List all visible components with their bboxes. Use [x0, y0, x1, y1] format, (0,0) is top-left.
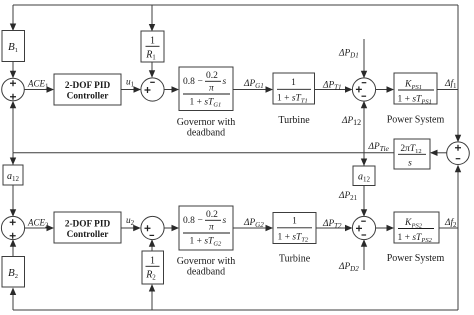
arrowhead into B1 top — [10, 24, 16, 32]
wire governor G1 to turbine T1 — [233, 89, 272, 91]
sign S3 minus bottom — [362, 95, 367, 97]
wire bottom line up into 1/R2 — [151, 285, 153, 310]
svg-text:ΔPTie: ΔPTie — [368, 142, 390, 153]
sign S1 plus bottom — [10, 94, 16, 100]
svg-text:0.8: 0.8 — [183, 216, 195, 226]
summing junction S4 — [1, 216, 24, 239]
wire turbine T2 to sum S6 — [316, 227, 352, 229]
arrowhead into governor G1 — [172, 86, 180, 92]
wire S2 to governor G1 — [164, 89, 178, 91]
wire 1/R2 up to S5 bottom — [151, 240, 153, 251]
arrowhead into controller U2 — [47, 225, 55, 231]
block 1/R2 — [142, 251, 164, 284]
block governor G1 — [179, 67, 233, 111]
block text governor G2 fraction — [183, 210, 230, 248]
arrowhead into S1 top — [10, 71, 16, 79]
wire bottom line up into B2 — [12, 289, 14, 311]
svg-text:Controller: Controller — [67, 230, 109, 240]
arrowhead DPD1 into S3 top — [361, 71, 367, 79]
block B2 — [2, 257, 25, 288]
block text 1/R2 fraction — [145, 256, 159, 282]
sign S2 minus top — [150, 81, 155, 83]
block tie 2piT12/s — [394, 139, 430, 169]
block text governor G1 fraction — [183, 71, 230, 109]
svg-text:π: π — [209, 84, 214, 94]
summing junction S2 — [141, 78, 164, 101]
arrowhead into a12 mid top — [361, 159, 367, 167]
summing junction RS — [447, 142, 470, 165]
arrowhead into S5 bottom — [149, 239, 155, 247]
wire 1/R1 to sum S2 — [151, 62, 153, 77]
block text 1/R1 fraction — [145, 36, 159, 62]
summing junction S1 — [2, 78, 25, 101]
block text PS2 fraction — [398, 218, 435, 244]
wire right vertical Df1 feedback x=458 — [457, 5, 459, 141]
svg-text:Controller: Controller — [67, 92, 109, 102]
svg-text:1: 1 — [150, 256, 155, 267]
sign S4 plus top — [10, 219, 16, 225]
svg-text:Governor with: Governor with — [177, 117, 236, 128]
svg-text:π: π — [209, 223, 214, 233]
wire S1 to controller U1 (ACE1) — [24, 89, 53, 91]
wire a12 left to S4 top — [12, 185, 14, 217]
arrowhead into PS2 — [387, 225, 395, 231]
svg-text:Governor with: Governor with — [177, 256, 236, 267]
svg-text:s: s — [223, 216, 227, 226]
block text turbine T1 fraction — [277, 78, 311, 105]
svg-text:0.8: 0.8 — [183, 77, 195, 87]
arrowhead into governor G2 — [172, 225, 180, 231]
wire S4 to controller U2 (ACE2) — [24, 227, 53, 229]
svg-text:Power System: Power System — [387, 253, 445, 264]
block text turbine T2 fraction — [277, 217, 312, 244]
wire DPD1 into S3 top — [363, 39, 365, 78]
block text controller U2 — [65, 220, 111, 241]
wire controller U2 to sum S5 — [121, 227, 140, 229]
arrowhead into S6 left — [345, 225, 353, 231]
svg-text:Power System: Power System — [387, 115, 445, 126]
sign S3 minus top — [362, 82, 367, 84]
svg-text:−: − — [198, 77, 203, 87]
block power system PS2 — [394, 212, 439, 243]
wire PS2 to Df2 node — [439, 227, 458, 229]
arrowhead into a12 left top — [10, 158, 16, 166]
sign RS plus top — [455, 145, 461, 151]
arrowhead into RS bottom — [455, 165, 461, 173]
block text tie 2piT12/s fraction — [398, 144, 426, 169]
wire PS1 to Df1 node — [437, 89, 458, 91]
block turbine T2 — [273, 213, 316, 244]
wire B1 to sum S1 — [12, 62, 14, 78]
arrowhead into S6 top — [361, 209, 367, 217]
svg-text:−: − — [198, 216, 203, 226]
arrowhead into S1 bottom — [10, 101, 16, 109]
arrowhead into controller U1 — [47, 86, 55, 92]
summing junction S3 — [352, 78, 375, 101]
block governor G2 — [179, 206, 233, 250]
block text PS1 fraction — [398, 80, 435, 106]
svg-text:s: s — [408, 159, 412, 169]
svg-text:1: 1 — [291, 78, 296, 88]
svg-text:2-DOF PID: 2-DOF PID — [65, 81, 111, 91]
svg-text:2-DOF PID: 2-DOF PID — [65, 220, 111, 230]
sign S5 plus left — [145, 225, 151, 231]
sign S3 plus left — [356, 86, 362, 92]
arrowhead into tie block right — [430, 150, 438, 156]
sign S5 minus bottom — [150, 234, 155, 236]
svg-text:ΔP12: ΔP12 — [341, 116, 361, 127]
summing junction S6 — [352, 216, 375, 239]
block 1/R1 — [141, 31, 164, 62]
arrowhead into 1/R2 bottom — [149, 284, 155, 292]
wire top line down to B1 — [12, 5, 14, 30]
wire B2 to S4 bottom — [12, 241, 14, 257]
arrowhead into S4 top — [10, 209, 16, 217]
arrowhead into S3 left — [345, 86, 353, 92]
sign S4 plus bottom — [10, 233, 16, 239]
wire RS output to tie block — [431, 152, 447, 154]
wire DPD2 up into S6 bottom — [363, 241, 365, 271]
svg-text:1: 1 — [150, 36, 155, 47]
wire bottom feedback line y=310 — [13, 309, 458, 311]
svg-text:0.2: 0.2 — [206, 210, 218, 220]
wire tie branch up to S1 bottom — [12, 102, 14, 153]
block controller U1 — [54, 74, 121, 105]
wire turbine T1 to sum S3 — [315, 89, 352, 91]
svg-text:deadband: deadband — [187, 267, 225, 278]
wire S3 to power system PS1 — [375, 89, 393, 91]
wire S5 to governor G2 — [164, 227, 178, 229]
wire tie branch down to a12 mid — [363, 153, 365, 166]
block a12 mid — [353, 166, 375, 186]
arrowhead into PS1 — [387, 86, 395, 92]
block power system PS1 — [394, 73, 437, 104]
wire Df2 up into RS bottom — [457, 166, 459, 229]
svg-text:0.2: 0.2 — [206, 71, 218, 81]
arrowhead into S2 left — [134, 86, 142, 92]
sign S6 minus bottom — [362, 234, 367, 236]
arrowhead DPD2 into S6 bottom — [361, 239, 367, 247]
arrowhead into 1/R1 top — [149, 24, 155, 32]
arrowhead into S2 top — [149, 70, 155, 78]
svg-text:s: s — [223, 77, 227, 87]
block controller U2 — [54, 212, 121, 243]
wire DP12 up into S3 bottom — [363, 102, 365, 153]
svg-text:Turbine: Turbine — [279, 254, 311, 265]
arrowhead into turbine T2 — [266, 225, 274, 231]
wire Df2 down to bottom line — [457, 228, 459, 310]
wire tie line y=153 — [13, 152, 394, 154]
arrowhead into turbine T1 — [266, 86, 274, 92]
block a12 left — [3, 165, 23, 185]
svg-text:Turbine: Turbine — [278, 115, 310, 126]
wire governor G2 to turbine T2 — [233, 227, 272, 229]
sign RS minus bottom — [456, 158, 461, 160]
sign S6 plus left — [356, 225, 362, 231]
wire tie branch down to a12 left — [12, 153, 14, 165]
wire top feedback line y=5 — [13, 4, 458, 6]
sign S1 plus top — [10, 80, 16, 86]
arrowhead DP12 into S3 bottom — [361, 101, 367, 109]
wire controller U1 to sum S2 — [121, 89, 140, 91]
arrowhead into RS top — [455, 135, 461, 143]
block turbine T1 — [273, 73, 315, 104]
wire Df1 down into RS top — [457, 90, 459, 142]
arrowhead into S5 left — [133, 225, 141, 231]
sign S6 minus top — [361, 220, 366, 222]
svg-text:deadband: deadband — [187, 128, 225, 139]
wire a12 mid to S6 top — [363, 186, 365, 217]
arrowhead into B2 bottom — [10, 288, 16, 296]
svg-text:1: 1 — [292, 217, 297, 227]
sign S2 plus left — [145, 87, 151, 93]
block B1 — [2, 31, 25, 62]
block text controller U1 — [65, 81, 111, 102]
arrowhead into S4 bottom — [10, 239, 16, 247]
wire branch down to 1/R1 — [151, 5, 153, 30]
summing junction S5 — [141, 216, 164, 239]
wire S6 to power system PS2 — [375, 227, 393, 229]
